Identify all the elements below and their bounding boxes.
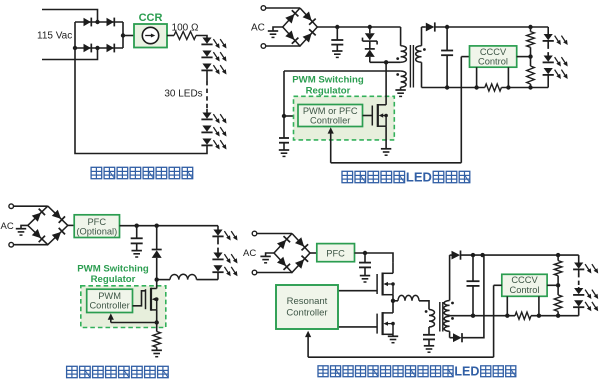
LED string1 LED6: [201, 139, 226, 150]
wire AC line bottom (115 Vac neutral): [42, 48, 98, 60]
capacitor C6 (resonant): [423, 335, 435, 340]
wire gate lead Q4: [338, 326, 377, 328]
wire D7 bottom: [156, 258, 158, 280]
wire output rail: [435, 26, 548, 28]
wire feedback bottom (c4): [308, 356, 494, 358]
LED string4 LED2: [573, 288, 598, 299]
inductor L1: [170, 274, 197, 279]
ground at Q1: [381, 149, 391, 155]
wire secondary bottom lead (c4): [449, 331, 451, 337]
wire bridge left side: [74, 22, 76, 48]
wire D7 top: [156, 226, 158, 250]
wire C3 top: [446, 27, 448, 51]
wire LED1 down (c3): [217, 236, 219, 240]
junction return-C7: [471, 314, 475, 318]
wire C7 top: [472, 255, 474, 281]
wire output return rail (c4): [450, 315, 579, 317]
junction bridge bottom-left: [73, 46, 77, 50]
constant-current regulator CCR: [134, 24, 167, 48]
capacitor C2 (VCC): [279, 138, 289, 143]
wire CCR to resistor: [167, 35, 174, 37]
svg-text:Controller: Controller: [310, 116, 350, 126]
wire feedback to CCCV: [461, 56, 469, 58]
wire feedback riser: [460, 57, 462, 163]
wire LED branch top (c4): [578, 255, 580, 262]
LED string1 LED3: [201, 64, 226, 75]
CCCV control U2 box: [470, 46, 517, 67]
wire primary top lead: [400, 27, 402, 46]
wire half-bridge node: [392, 295, 394, 313]
label Controller U1: [310, 116, 350, 126]
LED string4 LED1: [573, 263, 598, 274]
resonant controller U6 box: [276, 285, 338, 329]
label Optional: [76, 227, 117, 237]
wire bridge top branch: [75, 21, 123, 23]
LED string2 LED2: [543, 56, 568, 67]
wire inductor to LEDs: [197, 279, 219, 281]
junction PFC rail-cap: [363, 251, 367, 255]
feedback arrow into U1: [328, 127, 334, 163]
circuit 1: non-isolated linear driver (115 Vac + CCR + 30 LEDs): [0, 0, 1, 1]
wire rectified rail: [317, 26, 400, 28]
circuit 3: non-isolated buck driver: [0, 0, 1, 1]
terminal AC top: [261, 6, 266, 11]
controller U1 box: [298, 105, 363, 127]
wire divider bottom (c4): [557, 311, 559, 315]
svg-text:Regulator: Regulator: [306, 86, 351, 97]
junction rail-clamp: [368, 25, 372, 29]
label 100 Ohm: [172, 23, 199, 34]
label 115 Vac: [37, 31, 72, 42]
wire clamp top: [369, 27, 371, 33]
wire CCCV bottom right (c4): [538, 296, 540, 315]
terminal AC top (c3): [9, 204, 14, 209]
ground at BR3: [16, 229, 26, 235]
svg-text:PFC: PFC: [326, 248, 345, 258]
junction drain-primary: [384, 60, 388, 64]
wire divider top (c4): [557, 255, 559, 261]
transistor Q1 (MOSFET): [372, 104, 388, 127]
LED string4 LED3: [573, 300, 598, 311]
LED string1 LED4: [201, 113, 226, 124]
junction return-C3: [445, 85, 449, 89]
label Resonant: [287, 296, 328, 307]
diode D7 (freewheel): [152, 250, 162, 258]
wire gate lead U4: [133, 291, 146, 306]
junction divider mid: [528, 54, 532, 58]
wire VCC down: [283, 71, 285, 138]
diode D8 (output top): [452, 251, 461, 260]
wire cap C1 bottom: [336, 45, 338, 51]
junction bridge output: [121, 33, 125, 37]
transformer T1 primary winding: [401, 46, 407, 63]
wire LED1 down (c4): [578, 269, 580, 273]
LED string3 LED3: [212, 265, 237, 276]
diode D9 (output bottom): [453, 333, 462, 342]
junction switch node: [155, 277, 159, 281]
diode D3 (bridge bottom-left): [84, 44, 92, 53]
junction rail-Rdiv (c4): [556, 253, 560, 257]
svg-text:PWM Switching: PWM Switching: [292, 75, 364, 86]
label AC (c3): [1, 221, 14, 232]
wire to D9: [450, 337, 453, 339]
junction VCC: [282, 114, 286, 118]
wire R5 to ground: [156, 347, 158, 350]
wire dash to LED2 (c4): [578, 287, 580, 288]
wire LED branch bottom (c4): [578, 307, 580, 316]
label Controller U4: [89, 301, 129, 311]
wire center tap segment: [449, 314, 451, 317]
svg-text:30 LEDs: 30 LEDs: [164, 89, 202, 100]
wire LED branch bottom: [547, 75, 549, 88]
transformer T1 secondary winding: [416, 46, 422, 63]
junction rail-Rdiv: [528, 25, 532, 29]
wire C7 bottom: [472, 286, 474, 316]
zener clamp Z1: [363, 33, 378, 44]
wire LED branch bottom (c3): [217, 272, 219, 279]
wire bridge left to ground (c4): [266, 253, 274, 256]
wire divider mid (c4): [557, 276, 559, 295]
LED string3 LED2: [212, 253, 237, 264]
wire clamp mid: [369, 41, 371, 49]
wire C2 to ground: [283, 143, 285, 150]
wire CCCV left (c4): [494, 284, 502, 286]
polarity dot T2 primary: [425, 310, 428, 313]
polarity dot secondary: [423, 48, 426, 51]
wire dashed LED string2: [547, 45, 549, 55]
wire CCCV bottom left (c4): [506, 296, 508, 315]
caption circuit 1: [91, 167, 193, 178]
LED string1 LED1: [201, 38, 226, 49]
wire C3 bottom: [446, 55, 448, 87]
svg-text:Control: Control: [510, 285, 540, 295]
svg-text:Resonant: Resonant: [287, 296, 328, 307]
resistor R7: [554, 261, 562, 276]
wire Q1 drain: [385, 62, 387, 105]
polarity dot T2 sec bottom: [451, 317, 454, 320]
transistor Q3 (high-side MOSFET): [377, 273, 395, 296]
label AC (c4): [243, 248, 256, 259]
wire resistor to LED string: [196, 36, 207, 38]
LED string2 LED3: [543, 68, 568, 79]
caption circuit 4: [318, 365, 516, 379]
terminal AC top (c4): [252, 231, 257, 236]
caption circuit 3: [67, 366, 169, 377]
wire Q1 source: [385, 126, 387, 149]
LED string1 LED2: [201, 51, 226, 62]
caption circuit 2: [342, 170, 470, 185]
svg-text:AC: AC: [243, 248, 256, 259]
wire primary bottom: [370, 61, 401, 63]
ground at C5: [360, 276, 370, 282]
junction half-bridge mid: [391, 299, 395, 303]
wire AC top to bridge: [266, 7, 300, 9]
wire gate lead U1: [363, 115, 373, 117]
label PFC (c3): [87, 217, 106, 227]
resistor R5 (sense): [153, 332, 161, 348]
wire C5 top: [364, 253, 366, 263]
wire cap C1 top: [336, 27, 338, 40]
transformer T1 core: [410, 45, 413, 88]
terminal AC bottom: [261, 44, 266, 49]
ground at Q4: [388, 336, 398, 342]
ground at C2: [279, 150, 289, 156]
capacitor C3 (output filter): [441, 51, 453, 56]
label CCCV (c4): [511, 275, 538, 285]
controller U4 box: [87, 289, 133, 312]
wire secondary top lead: [421, 27, 423, 46]
polarity dot primary: [396, 57, 399, 60]
wire aux VCC lead: [284, 70, 401, 72]
svg-text:Control: Control: [478, 56, 508, 66]
junction return-cccv2: [506, 85, 510, 89]
svg-text:Regulator: Regulator: [91, 274, 136, 285]
resistor R2 (sense): [485, 84, 502, 91]
wire gate lead Q3: [338, 290, 377, 292]
bridge rectifier BR3: [28, 206, 68, 245]
svg-text:115 Vac: 115 Vac: [37, 31, 72, 42]
svg-text:AC: AC: [251, 23, 265, 34]
transformer T2 core: [440, 302, 443, 332]
svg-text:CCR: CCR: [139, 12, 163, 24]
wire D9 return: [462, 255, 484, 338]
transformer T1 aux winding: [401, 71, 407, 87]
capacitor C4: [131, 238, 143, 243]
PWM switching regulator box (dashed): [294, 96, 395, 140]
resistor R3: [527, 32, 535, 48]
junction bottom AC feed: [95, 46, 99, 50]
junction top AC feed: [95, 20, 99, 24]
wire bridge left to ground: [273, 27, 283, 31]
circuit 4: two-stage PFC isolated LED driver: [0, 0, 1, 1]
wire bridge bottom branch: [75, 47, 123, 49]
wire bridge to PFC box: [68, 224, 74, 226]
capacitor C1 (input filter): [331, 40, 343, 45]
wire CCCV right (c4): [547, 284, 558, 286]
ground at BR4: [260, 256, 270, 262]
svg-text:CCCV: CCCV: [511, 275, 538, 285]
junction rail-C3: [445, 25, 449, 29]
feedback arrow into U6: [305, 331, 311, 358]
capacitor C7 (output): [467, 281, 480, 286]
polarity dot aux: [396, 73, 399, 76]
wire divider mid: [530, 47, 532, 66]
ground at R5: [152, 350, 162, 356]
diode D5 (clamp): [365, 49, 375, 57]
svg-text:LED: LED: [406, 170, 432, 185]
LED string3 LED1: [212, 230, 237, 241]
transistor Q2 (MOSFET): [146, 288, 159, 311]
wire AC line top (115 Vac hot): [42, 10, 98, 23]
capacitor C5: [359, 263, 371, 268]
junction divider mid (c4): [556, 283, 560, 287]
junction return-cccv1 (c4): [505, 314, 509, 318]
svg-text:(Optional): (Optional): [76, 227, 117, 237]
junction rail-D9 return: [480, 253, 484, 257]
svg-text:AC: AC: [1, 221, 14, 232]
junction rail-C7: [471, 253, 475, 257]
label Control U7: [510, 285, 540, 295]
svg-text:Controller: Controller: [89, 301, 129, 311]
wire M1 drain: [392, 263, 394, 274]
wire CCCV bottom right: [507, 67, 509, 87]
resistor R6 (sense c4): [515, 312, 531, 319]
wire CCCV right: [517, 56, 531, 58]
wire dashed LED string4: [578, 273, 580, 287]
diode D6 (output rectifier): [426, 22, 435, 31]
transistor Q4 (low-side MOSFET): [377, 312, 395, 335]
bridge rectifier BR2: [283, 8, 318, 46]
wire C6 to ground: [428, 339, 430, 345]
ground at C1: [332, 51, 342, 57]
wire dash to LED2: [547, 55, 549, 56]
wire inductor to primary: [419, 301, 429, 310]
wire output rail (c4): [461, 254, 579, 256]
PWM switching regulator box (dashed, c3): [81, 286, 166, 328]
wire C5 bottom: [364, 267, 366, 275]
resistor R1 100 Ohm: [174, 32, 196, 40]
wire dashed (30 LEDs continuation): [206, 81, 208, 109]
wire to D8: [450, 254, 452, 256]
wire bridge right side: [122, 22, 124, 48]
wire PFC output rail: [120, 225, 219, 227]
junction return-cccv2 (c4): [537, 314, 541, 318]
wire bridge left to ground (c3): [21, 225, 28, 228]
wire secondary bottom lead: [421, 62, 423, 87]
wire to inductor: [157, 279, 170, 281]
wire Q2 drain: [156, 280, 158, 289]
wire LED branch top: [547, 27, 549, 34]
label AC: [251, 23, 265, 34]
wire LED3 down: [206, 70, 208, 81]
wire feedback (c3): [111, 322, 157, 324]
wire feedback bottom: [331, 162, 462, 164]
wire AC bottom to bridge: [266, 45, 300, 47]
ground at C4: [132, 251, 142, 257]
transformer T2 secondary bottom winding: [444, 316, 450, 331]
junction rail-D7: [155, 224, 159, 228]
label PFC (c4): [326, 248, 345, 258]
resistor R4: [527, 66, 535, 84]
wire VCC to controller: [284, 115, 298, 117]
inductor L2 (resonant): [398, 295, 419, 300]
wire C4 top: [136, 226, 138, 239]
svg-text:PWM: PWM: [98, 291, 121, 301]
resistor R8: [554, 295, 562, 312]
svg-text:PWM or PFC: PWM or PFC: [303, 106, 358, 116]
wire clamp bottom: [369, 57, 371, 62]
transformer T2 primary winding: [429, 310, 435, 328]
wire dashed to LED4: [206, 109, 208, 113]
junction rail-cap: [335, 25, 339, 29]
label CCCV: [480, 47, 507, 57]
label CCR: [139, 12, 163, 24]
junction return-cccv1: [474, 85, 478, 89]
wire dashed LED string3: [217, 240, 219, 252]
label 30 LEDs: [164, 89, 202, 100]
wire output return rail: [422, 87, 549, 89]
ground at C6: [424, 346, 434, 352]
PFC box U5: [317, 244, 355, 262]
wire secondary top lead (c4): [449, 255, 451, 300]
wire C4 bottom: [136, 243, 138, 250]
svg-text:CCCV: CCCV: [480, 47, 507, 57]
wire dash to LED2 (c3): [217, 252, 219, 253]
wire divider bottom: [530, 84, 532, 88]
junction return-Rdiv (c4): [556, 314, 560, 318]
wire node to inductor: [393, 300, 398, 302]
label PWM Switching: [292, 75, 364, 86]
terminal AC bottom (c3): [9, 242, 14, 247]
CCCV control U7 box: [502, 274, 547, 296]
circuit 2: single-stage flyback LED driver: [0, 0, 1, 1]
label Control U2: [478, 56, 508, 66]
wire feedback riser (c4): [493, 285, 495, 357]
wire LED1 down: [547, 41, 549, 45]
ground at aux winding: [395, 87, 405, 96]
bridge rectifier BR4: [274, 234, 310, 273]
wire Q2 source: [156, 310, 158, 332]
svg-text:Controller: Controller: [286, 307, 327, 318]
wire CCCV bottom left: [476, 67, 478, 87]
label Controller U6: [286, 307, 327, 318]
wire return path: [75, 48, 207, 154]
wire primary to resonant cap: [428, 327, 430, 335]
wire AC bottom to bridge (c3): [14, 244, 48, 246]
LED string1 LED5: [201, 126, 226, 137]
terminal AC bottom (c4): [252, 270, 257, 275]
wire AC top to bridge (c3): [14, 205, 48, 207]
label Regulator (c3): [91, 274, 136, 285]
wire Q4 source: [392, 334, 394, 336]
transformer T2 secondary top winding: [444, 301, 450, 316]
wire AC top to bridge (c4): [257, 233, 292, 235]
diode D1 (bridge top-left): [84, 18, 92, 27]
LED string2 LED1: [543, 34, 568, 45]
polarity dot T2 sec top: [451, 302, 454, 305]
diode D2 (bridge top-right): [107, 18, 115, 27]
wire secondary to diode: [422, 26, 426, 28]
label PWM Switching (c3): [77, 264, 149, 275]
junction return-Rdiv: [528, 85, 532, 89]
wire bridge output to CCR: [123, 35, 134, 37]
svg-text:PFC: PFC: [87, 217, 106, 227]
wire PFC to half-bridge: [355, 253, 394, 263]
wire LED branch top (c3): [217, 226, 219, 230]
PFC optional box U3: [74, 215, 119, 238]
wire bridge to PFC (c4): [310, 252, 317, 254]
label PWM (c3): [98, 291, 121, 301]
wire divider top: [530, 27, 532, 32]
feedback arrow into U4: [108, 313, 114, 322]
svg-text:LED: LED: [454, 365, 479, 379]
label Regulator: [306, 86, 351, 97]
label PWM or PFC: [303, 106, 358, 116]
junction rail-C4: [135, 224, 139, 228]
svg-text:PWM Switching: PWM Switching: [77, 264, 149, 275]
ground at bridge BR2: [268, 31, 278, 37]
wire AC bottom to bridge (c4): [257, 272, 292, 274]
junction sense node: [155, 320, 159, 324]
diode D4 (bridge bottom-right): [107, 44, 115, 53]
